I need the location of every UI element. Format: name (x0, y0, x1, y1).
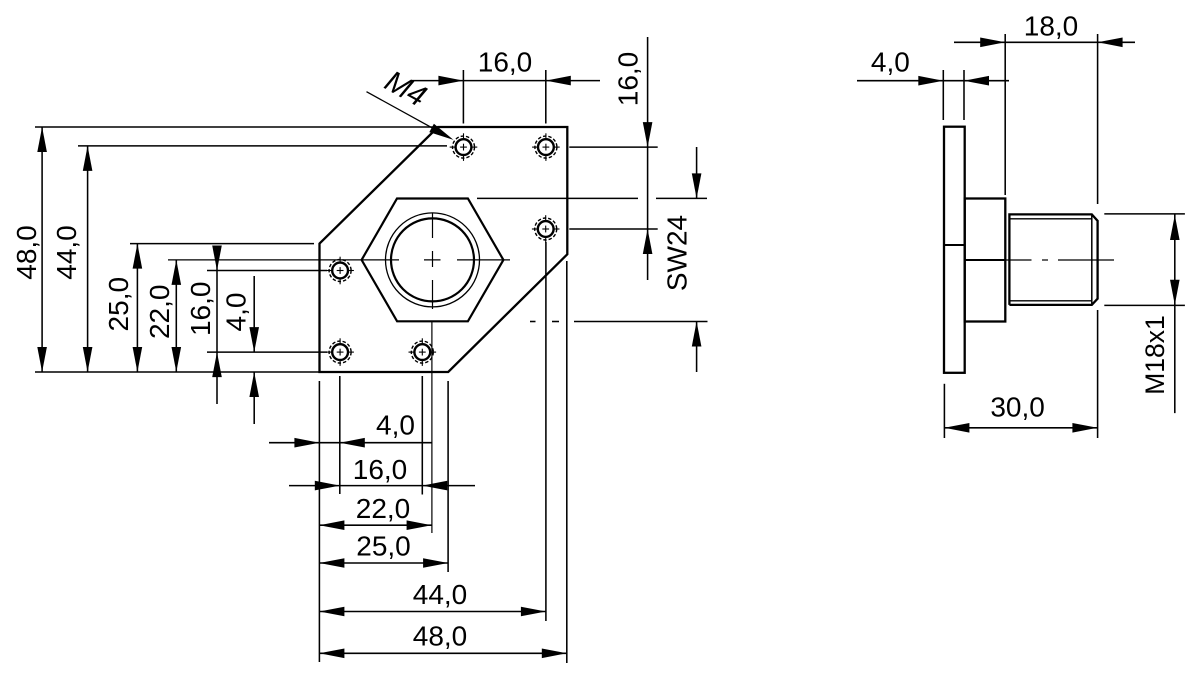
svg-text:22,0: 22,0 (356, 493, 411, 524)
side view thread minor line top (1009, 218, 1091, 220)
dimension SW24 line (692, 147, 702, 372)
dimension 44,0 bottom line (319, 607, 546, 617)
extension line hole row 16 upper (207, 270, 327, 272)
svg-text:16,0: 16,0 (612, 52, 643, 107)
side view thread chamfer line (1091, 214, 1093, 305)
svg-text:48,0: 48,0 (413, 620, 468, 651)
extension line bottom hole col (421, 376, 423, 495)
dimension 44,0 left line (83, 146, 93, 372)
dimension 22,0 bottom text (356, 493, 411, 524)
dimension 48,0 bottom line (319, 649, 566, 659)
svg-text:M4: M4 (379, 64, 431, 113)
dimension M18x1 text (1140, 315, 1170, 395)
hex boss SW24 (front view) (362, 199, 504, 322)
extension line stub top (1104, 213, 1185, 215)
hole M4 bottom-left (326, 338, 354, 366)
extension line hole row right a (569, 146, 657, 148)
dimension 16,0 left line (212, 246, 222, 405)
svg-text:18,0: 18,0 (1024, 10, 1079, 41)
dimension 48,0 left line (37, 127, 47, 372)
svg-text:44,0: 44,0 (413, 579, 468, 610)
side view centerline (1006, 259, 1114, 261)
extension line bottom edge left (35, 371, 320, 373)
svg-text:48,0: 48,0 (11, 225, 42, 280)
dimension 16,0 top text (478, 46, 533, 77)
extension line hole row right b (569, 228, 657, 230)
extension line top hole left col (462, 70, 464, 124)
svg-text:4,0: 4,0 (871, 47, 910, 78)
dimension 4,0 side text (871, 47, 910, 78)
dimension M18x1 line (1170, 214, 1180, 413)
hole M4 top-right (532, 133, 560, 161)
svg-text:30,0: 30,0 (990, 391, 1045, 422)
dimension 4,0 bottom line (269, 438, 432, 448)
extension line top edge 48 (35, 126, 438, 128)
dimension 22,0 left line (172, 260, 182, 372)
dimension 18,0 side text (1024, 10, 1079, 41)
side view plate outline (944, 127, 965, 373)
svg-text:4,0: 4,0 (220, 293, 251, 332)
hole M4 top-left (450, 133, 478, 161)
extension line stub end col (1097, 34, 1099, 438)
dimension 4,0 left line (249, 276, 259, 424)
dimension 4,0 left text (220, 293, 251, 332)
svg-text:16,0: 16,0 (478, 46, 533, 77)
extension line side plate right top (963, 70, 965, 120)
dimension 4,0 side line (857, 76, 1009, 86)
dimension 25,0 left text (103, 277, 134, 332)
hole M4 right-middle (532, 215, 560, 243)
svg-text:44,0: 44,0 (51, 225, 82, 280)
extension line top hole row 44 (78, 145, 447, 147)
dimension 48,0 left text (11, 225, 42, 280)
dimension 4,0 bottom text (376, 409, 415, 440)
svg-text:SW24: SW24 (661, 215, 692, 291)
dimension SW24 text (661, 215, 692, 291)
extension line right holes col (545, 242, 547, 621)
side view plate chamfer edge (944, 244, 965, 246)
svg-text:4,0: 4,0 (376, 409, 415, 440)
dimension 22,0 bottom line (319, 520, 431, 530)
dimension 16,0 bottom line (289, 481, 475, 491)
dimension 22,0 left text (144, 285, 175, 340)
center hole horizontal centerline (168, 259, 510, 261)
svg-text:M18x1: M18x1 (1140, 315, 1170, 395)
svg-text:16,0: 16,0 (185, 282, 216, 337)
dimension 44,0 bottom text (413, 579, 468, 610)
side view stub outline (1009, 214, 1097, 305)
dimension 16,0 bottom text (353, 454, 408, 485)
dimension 30,0 side text (990, 391, 1045, 422)
svg-text:16,0: 16,0 (353, 454, 408, 485)
thread major circle M18x1 (386, 213, 480, 307)
flange plate outline (front view) (320, 127, 568, 372)
extension line top hole right col (545, 70, 547, 124)
dimension 16,0 right line (643, 37, 653, 280)
extension line stub start col (1004, 34, 1006, 195)
extension line stub bottom (1104, 304, 1185, 306)
extension line hex bottom (530, 321, 708, 323)
dimension 44,0 left text (51, 225, 82, 280)
dimension 18,0 side line (954, 38, 1135, 48)
extension line side plate left bottom (943, 384, 945, 438)
thread minor circle M18x1 (391, 218, 474, 301)
extension line hex top (477, 197, 707, 199)
dimension 48,0 bottom text (413, 620, 468, 651)
extension line plate left col (318, 381, 320, 662)
svg-text:22,0: 22,0 (144, 285, 175, 340)
dimension 25,0 bottom line (319, 558, 448, 568)
leader line M4 (367, 92, 454, 140)
dimension 25,0 left line (133, 244, 143, 372)
extension line chamfer point 25 (130, 243, 314, 245)
extension line chamfer col 25 (447, 381, 449, 572)
hole M4 bottom-middle (409, 338, 437, 366)
center hole vertical centerline (431, 213, 434, 533)
extension line bottom hole row (207, 351, 327, 353)
svg-text:25,0: 25,0 (103, 277, 134, 332)
hole M4 left-middle (326, 257, 354, 285)
extension line plate right col (566, 261, 568, 663)
side view thread minor line bottom (1009, 300, 1091, 302)
side view hex body outline (965, 199, 1006, 322)
side view hex corner edge (965, 259, 1006, 261)
extension line side plate left top (942, 70, 944, 120)
dimension 16,0 top line (412, 76, 600, 86)
dimension 25,0 bottom text (356, 530, 411, 561)
dimension 16,0 right text (612, 52, 643, 107)
svg-text:25,0: 25,0 (356, 530, 411, 561)
extension line left holes col (339, 376, 341, 494)
dimension 16,0 left text (185, 282, 216, 337)
label M4 (379, 64, 431, 113)
dimension 30,0 side line (944, 423, 1097, 433)
